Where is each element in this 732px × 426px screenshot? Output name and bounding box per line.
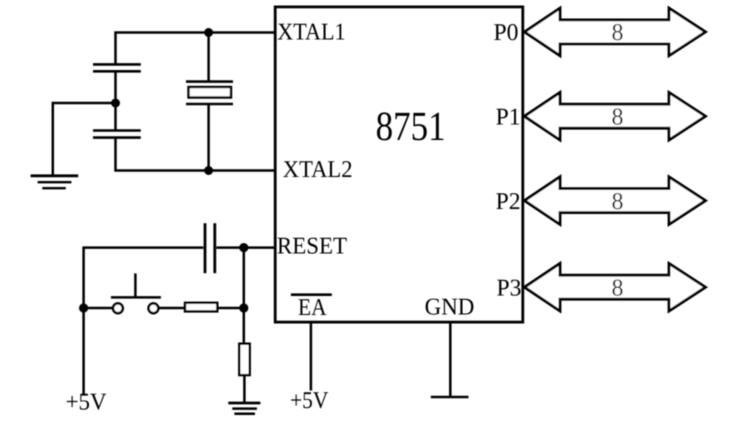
node: XTAL1 junction <box>204 28 213 37</box>
wire <box>243 375 246 402</box>
svg-text:P1: P1 <box>496 104 521 130</box>
crystal X1 <box>186 33 233 171</box>
node: +5V branch junction <box>79 303 88 312</box>
ground <box>228 403 260 414</box>
bus arrow P1 <box>525 92 706 140</box>
wire <box>243 248 246 344</box>
svg-text:P3: P3 <box>497 275 522 301</box>
node: XTAL2 junction <box>204 166 213 175</box>
svg-text:8: 8 <box>612 104 624 130</box>
capacitor C3 <box>205 223 215 273</box>
wire <box>116 33 276 66</box>
resistor R2 <box>239 344 249 375</box>
wire <box>114 71 117 130</box>
svg-text:8: 8 <box>612 275 624 301</box>
wire: EA pull-up <box>310 322 313 391</box>
bus arrow P3 <box>525 263 706 311</box>
svg-text:EA: EA <box>298 295 327 321</box>
wire <box>216 246 275 249</box>
ground <box>431 396 469 399</box>
capacitor C1 <box>93 64 141 71</box>
svg-text:XTAL1: XTAL1 <box>277 19 345 45</box>
bus arrow P0 <box>525 8 706 56</box>
svg-text:P0: P0 <box>494 20 519 46</box>
ground <box>31 176 79 188</box>
wire <box>159 307 185 310</box>
wire <box>217 307 244 310</box>
bus arrow P2 <box>525 177 706 225</box>
svg-text:P2: P2 <box>496 189 521 215</box>
wire <box>84 307 113 310</box>
svg-text:GND: GND <box>425 294 475 320</box>
capacitor C2 <box>93 131 141 138</box>
svg-text:RESET: RESET <box>277 234 348 260</box>
IC U1 8751 microcontroller <box>275 7 523 322</box>
svg-text:8: 8 <box>612 20 624 46</box>
resistor R1 <box>185 303 217 312</box>
wire <box>53 103 116 176</box>
svg-text:8751: 8751 <box>376 103 446 149</box>
node: RESET junction <box>239 243 248 252</box>
switch S1 terminal 2 <box>149 303 159 313</box>
switch S1 actuator <box>111 273 161 297</box>
wire <box>84 248 204 395</box>
wire <box>116 138 276 171</box>
node: C1-C2 junction <box>111 99 120 108</box>
svg-text:8: 8 <box>612 189 624 215</box>
svg-text:+5V: +5V <box>290 388 329 414</box>
node: R2 junction <box>239 303 248 312</box>
EA overline <box>291 293 332 296</box>
switch S1 terminal 1 <box>113 303 123 313</box>
svg-text:XTAL2: XTAL2 <box>283 157 353 183</box>
svg-text:+5V: +5V <box>66 389 108 415</box>
wire: GND pin <box>449 322 452 397</box>
